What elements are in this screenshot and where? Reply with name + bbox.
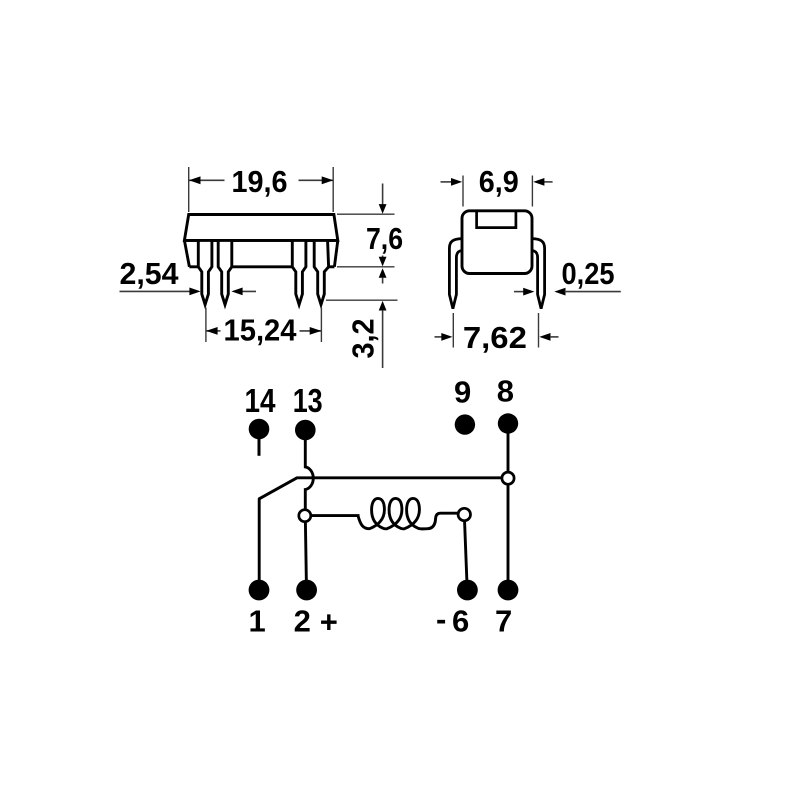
dimension 6,9 xyxy=(441,176,553,207)
svg-text:0,25: 0,25 xyxy=(562,256,615,291)
terminal dot pin 6 xyxy=(457,580,478,601)
shoulder line redrawn over pins xyxy=(184,239,337,242)
right pin (end view) xyxy=(532,239,545,309)
left pin (end view) xyxy=(449,239,462,309)
svg-text:2: 2 xyxy=(294,604,311,639)
svg-text:7,6: 7,6 xyxy=(366,221,403,256)
svg-text:19,6: 19,6 xyxy=(232,164,288,199)
wire coil right node to pin 6 xyxy=(464,515,467,585)
dimension 0,25 xyxy=(514,288,621,296)
dimension 7,6 xyxy=(337,184,395,284)
svg-text:6: 6 xyxy=(452,604,469,639)
pin 14 stub wire xyxy=(258,436,261,456)
coil left lead xyxy=(305,514,360,517)
svg-text:2,54: 2,54 xyxy=(120,256,180,291)
wire pin 13 with hop over contact line, down to coil node and pin 2 xyxy=(305,437,313,590)
dimension line 2,54 xyxy=(120,288,257,296)
coil node circle left (pin 2/13 side) xyxy=(299,510,311,522)
svg-text:7: 7 xyxy=(495,604,512,639)
svg-text:7,62: 7,62 xyxy=(463,320,527,355)
dimension 15,24 xyxy=(206,308,322,343)
coil node circle right (pin 6 side) xyxy=(458,508,470,520)
terminal dot pin 8 xyxy=(498,413,518,433)
svg-text:+: + xyxy=(320,605,338,640)
pin 6 (side view fork) xyxy=(292,241,306,305)
dimension line 19,6 xyxy=(189,167,334,212)
svg-text:8: 8 xyxy=(497,374,514,409)
dimension 3,2 xyxy=(326,256,398,369)
coil L1 winding xyxy=(358,498,459,528)
relay body (end view) xyxy=(462,211,532,274)
terminal dot pin 9 xyxy=(455,414,475,434)
relay body outline (side view) xyxy=(184,215,337,267)
terminal dot pin 14 xyxy=(249,419,270,440)
svg-text:15,24: 15,24 xyxy=(224,312,298,347)
terminal dot pin 7 xyxy=(498,580,519,601)
dimension 7,62 xyxy=(435,313,559,348)
pin 2 (side view fork) xyxy=(218,241,232,305)
svg-text:3,2: 3,2 xyxy=(346,319,381,359)
svg-text:14: 14 xyxy=(245,382,277,419)
svg-text:13: 13 xyxy=(293,382,323,419)
pin 1 (side view fork) xyxy=(198,241,212,305)
svg-text:9: 9 xyxy=(454,374,471,409)
polarity notch xyxy=(477,212,516,228)
svg-text:-: - xyxy=(436,602,446,637)
pin 7 (side view fork) xyxy=(314,241,328,305)
terminal dot pin 13 xyxy=(295,420,316,441)
contact node circle on pin8 wire xyxy=(502,472,514,484)
svg-text:1: 1 xyxy=(248,604,265,639)
terminal dot pin 2 xyxy=(296,580,317,601)
terminal dot pin 1 xyxy=(249,580,270,601)
svg-text:6,9: 6,9 xyxy=(479,164,519,199)
wire pin 8 to pin 7 through contact node xyxy=(507,430,510,584)
switch contact: armature from pin 1 to fixed contact line xyxy=(259,478,501,584)
